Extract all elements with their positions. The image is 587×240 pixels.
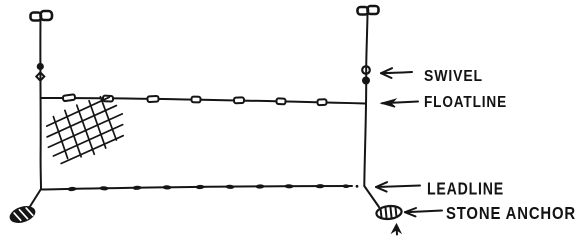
svg-text:SWIVEL: SWIVEL — [424, 68, 483, 85]
svg-text:STONE ANCHOR: STONE ANCHOR — [446, 203, 576, 223]
float F1 — [63, 94, 76, 101]
net mesh (crosshatch webbing) — [37, 90, 132, 170]
floatline — [41, 98, 365, 104]
float F5 — [234, 97, 244, 103]
buoy B2 (right surface float) — [358, 6, 379, 15]
float F2 — [103, 96, 113, 102]
swivel S1 (left, ring) — [36, 72, 44, 80]
float F7 — [317, 99, 326, 105]
arrow to floatline — [382, 100, 418, 108]
float F4 — [191, 97, 200, 103]
sinker W1 — [67, 187, 76, 192]
arrow to leadline — [376, 182, 420, 191]
sinker W10 — [342, 184, 349, 188]
sinker W9 — [316, 184, 325, 189]
stone anchor A1 (left) — [9, 204, 36, 224]
sinker W4 — [163, 185, 172, 190]
sinker W3 — [132, 185, 141, 190]
arrow to stone anchor — [405, 208, 442, 216]
stone anchor A2 (right) — [376, 205, 402, 220]
svg-text:LEADLINE: LEADLINE — [427, 179, 504, 199]
sinker W5 — [196, 185, 205, 190]
float F3 — [147, 96, 158, 102]
buoy B1 (left surface float) — [31, 11, 53, 21]
sinker W6 — [225, 184, 234, 189]
left bridle — [29, 189, 41, 208]
right bridle — [364, 186, 379, 207]
arrow to swivel — [381, 68, 412, 78]
sinker W2 — [99, 186, 108, 191]
leadline — [42, 186, 352, 190]
sinker W8 — [285, 184, 294, 189]
swivel S1 (left, dot) — [37, 63, 44, 70]
swivel S2 (right, dot) — [362, 77, 370, 85]
leadline end dot — [356, 185, 359, 188]
swivel S2 (right, ring) — [362, 66, 370, 74]
right buoy line (vertical) — [364, 15, 367, 186]
float F6 — [276, 98, 285, 104]
left buoy line (vertical) — [39, 20, 42, 189]
sinker W7 — [255, 184, 264, 189]
svg-text:FLOATLINE: FLOATLINE — [424, 94, 507, 111]
small up arrow under right anchor — [393, 225, 401, 235]
